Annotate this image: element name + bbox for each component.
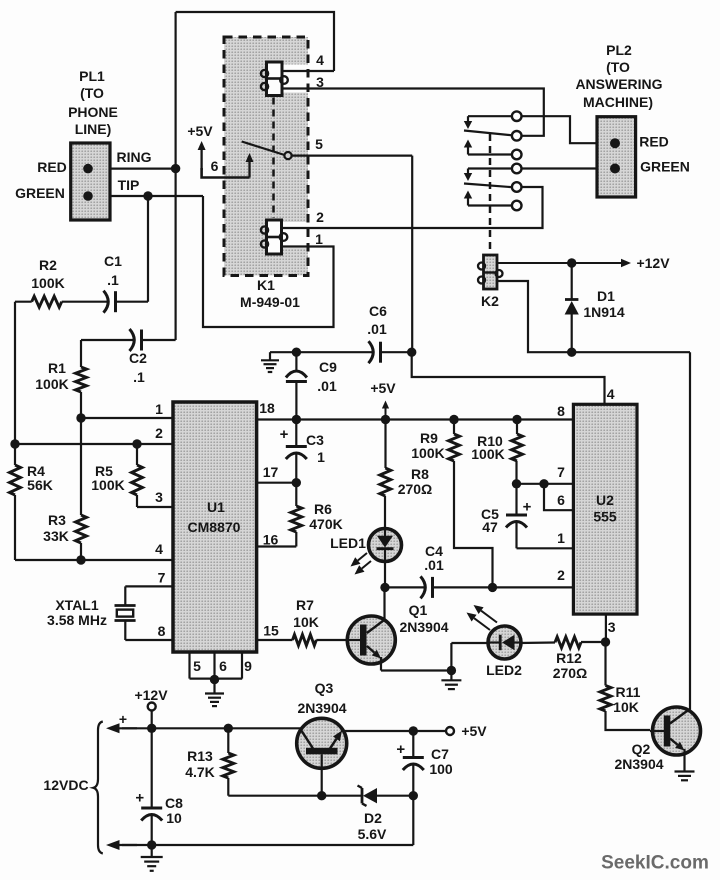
svg-text:C3: C3: [306, 432, 324, 448]
svg-text:100: 100: [429, 761, 453, 777]
svg-text:+: +: [280, 426, 289, 443]
svg-text:R8: R8: [411, 466, 429, 482]
svg-text:MACHINE): MACHINE): [583, 94, 653, 110]
svg-text:+: +: [523, 498, 532, 515]
svg-text:3: 3: [316, 74, 324, 90]
svg-text:2N3904: 2N3904: [399, 619, 448, 635]
svg-text:15: 15: [263, 623, 279, 639]
svg-text:1: 1: [317, 449, 325, 465]
svg-text:C7: C7: [431, 746, 449, 762]
svg-text:K1: K1: [257, 277, 275, 293]
svg-text:7: 7: [158, 570, 166, 586]
svg-text:R6: R6: [314, 501, 332, 517]
svg-text:8: 8: [557, 403, 565, 419]
svg-text:18: 18: [259, 400, 275, 416]
svg-text:.01: .01: [424, 557, 444, 573]
svg-text:.1: .1: [107, 272, 119, 288]
svg-text:3.58 MHz: 3.58 MHz: [47, 612, 107, 628]
svg-text:1N914: 1N914: [583, 304, 624, 320]
svg-text:10: 10: [166, 810, 182, 826]
svg-text:U1: U1: [207, 499, 225, 515]
svg-text:270Ω: 270Ω: [553, 665, 588, 681]
svg-text:+5V: +5V: [187, 123, 213, 139]
svg-text:100K: 100K: [91, 477, 124, 493]
svg-text:TIP: TIP: [118, 177, 140, 193]
svg-text:SeekIC.com: SeekIC.com: [601, 852, 709, 873]
svg-text:XTAL1: XTAL1: [55, 597, 99, 613]
svg-text:1: 1: [315, 231, 323, 247]
svg-text:D1: D1: [597, 288, 615, 304]
svg-text:PL2: PL2: [606, 42, 632, 58]
svg-text:R11: R11: [616, 684, 641, 700]
svg-text:Q2: Q2: [632, 741, 651, 757]
svg-text:16: 16: [263, 532, 279, 548]
svg-text:47: 47: [482, 519, 498, 535]
svg-text:C1: C1: [104, 253, 122, 269]
svg-text:100K: 100K: [35, 376, 68, 392]
svg-text:LINE): LINE): [75, 121, 112, 137]
svg-text:LED1: LED1: [330, 535, 366, 551]
svg-text:CM8870: CM8870: [188, 519, 241, 535]
svg-text:+: +: [119, 711, 127, 727]
svg-text:Q3: Q3: [315, 680, 334, 696]
svg-text:33K: 33K: [43, 528, 69, 544]
svg-text:4: 4: [607, 386, 615, 402]
svg-text:100K: 100K: [31, 275, 64, 291]
svg-text:6: 6: [211, 158, 219, 174]
svg-text:Q1: Q1: [409, 602, 428, 618]
svg-text:9: 9: [244, 658, 252, 674]
svg-text:100K: 100K: [471, 446, 504, 462]
svg-text:GREEN: GREEN: [15, 185, 65, 201]
svg-text:8: 8: [158, 623, 166, 639]
svg-text:1: 1: [155, 401, 163, 417]
svg-text:ANSWERING: ANSWERING: [575, 76, 662, 92]
svg-text:56K: 56K: [27, 477, 53, 493]
svg-text:U2: U2: [596, 492, 614, 508]
svg-text:+12V: +12V: [134, 687, 168, 703]
svg-text:.01: .01: [317, 378, 337, 394]
svg-text:(TO: (TO: [606, 59, 630, 75]
svg-text:1: 1: [557, 530, 565, 546]
svg-text:RED: RED: [37, 159, 67, 175]
svg-text:C2: C2: [129, 350, 147, 366]
svg-text:D2: D2: [364, 810, 382, 826]
svg-text:555: 555: [593, 509, 617, 525]
svg-text:C6: C6: [369, 303, 387, 319]
svg-text:470K: 470K: [309, 516, 342, 532]
svg-text:270Ω: 270Ω: [398, 481, 433, 497]
svg-text:R2: R2: [39, 257, 57, 273]
svg-text:PHONE: PHONE: [68, 104, 118, 120]
svg-text:+: +: [135, 789, 144, 806]
svg-text:PL1: PL1: [79, 68, 105, 84]
svg-text:+: +: [396, 741, 405, 758]
svg-text:2: 2: [316, 209, 324, 225]
svg-text:10K: 10K: [613, 699, 639, 715]
svg-text:GREEN: GREEN: [640, 159, 690, 175]
svg-text:+5V: +5V: [461, 723, 487, 739]
svg-text:12VDC: 12VDC: [43, 777, 88, 793]
svg-text:K2: K2: [481, 293, 499, 309]
svg-text:R7: R7: [296, 597, 314, 613]
svg-text:3: 3: [155, 489, 163, 505]
svg-text:+12V: +12V: [636, 255, 670, 271]
svg-text:4.7K: 4.7K: [185, 764, 215, 780]
svg-text:4: 4: [316, 52, 324, 68]
svg-text:.01: .01: [367, 321, 387, 337]
svg-text:C8: C8: [165, 795, 183, 811]
svg-text:3: 3: [608, 619, 616, 635]
svg-text:7: 7: [557, 464, 565, 480]
svg-text:R12: R12: [556, 650, 582, 666]
svg-text:LED2: LED2: [486, 662, 522, 678]
svg-text:R1: R1: [48, 360, 66, 376]
svg-text:6: 6: [219, 658, 227, 674]
svg-text:2: 2: [557, 567, 565, 583]
svg-text:.1: .1: [133, 369, 145, 385]
svg-text:R9: R9: [420, 430, 438, 446]
svg-text:4: 4: [155, 541, 163, 557]
svg-text:RING: RING: [117, 149, 152, 165]
svg-text:R13: R13: [187, 748, 213, 764]
svg-text:RED: RED: [639, 134, 669, 150]
svg-text:2N3904: 2N3904: [297, 700, 346, 716]
svg-text:+5V: +5V: [370, 380, 396, 396]
svg-text:R3: R3: [48, 512, 66, 528]
svg-text:5.6V: 5.6V: [358, 826, 387, 842]
svg-text:6: 6: [557, 492, 565, 508]
svg-text:2: 2: [155, 425, 163, 441]
svg-text:100K: 100K: [411, 445, 444, 461]
svg-text:M-949-01: M-949-01: [240, 294, 300, 310]
svg-text:5: 5: [193, 658, 201, 674]
svg-text:10K: 10K: [293, 614, 319, 630]
svg-text:(TO: (TO: [80, 85, 104, 101]
svg-text:5: 5: [315, 136, 323, 152]
svg-text:17: 17: [263, 464, 279, 480]
svg-text:2N3904: 2N3904: [614, 756, 663, 772]
svg-text:C9: C9: [319, 359, 337, 375]
